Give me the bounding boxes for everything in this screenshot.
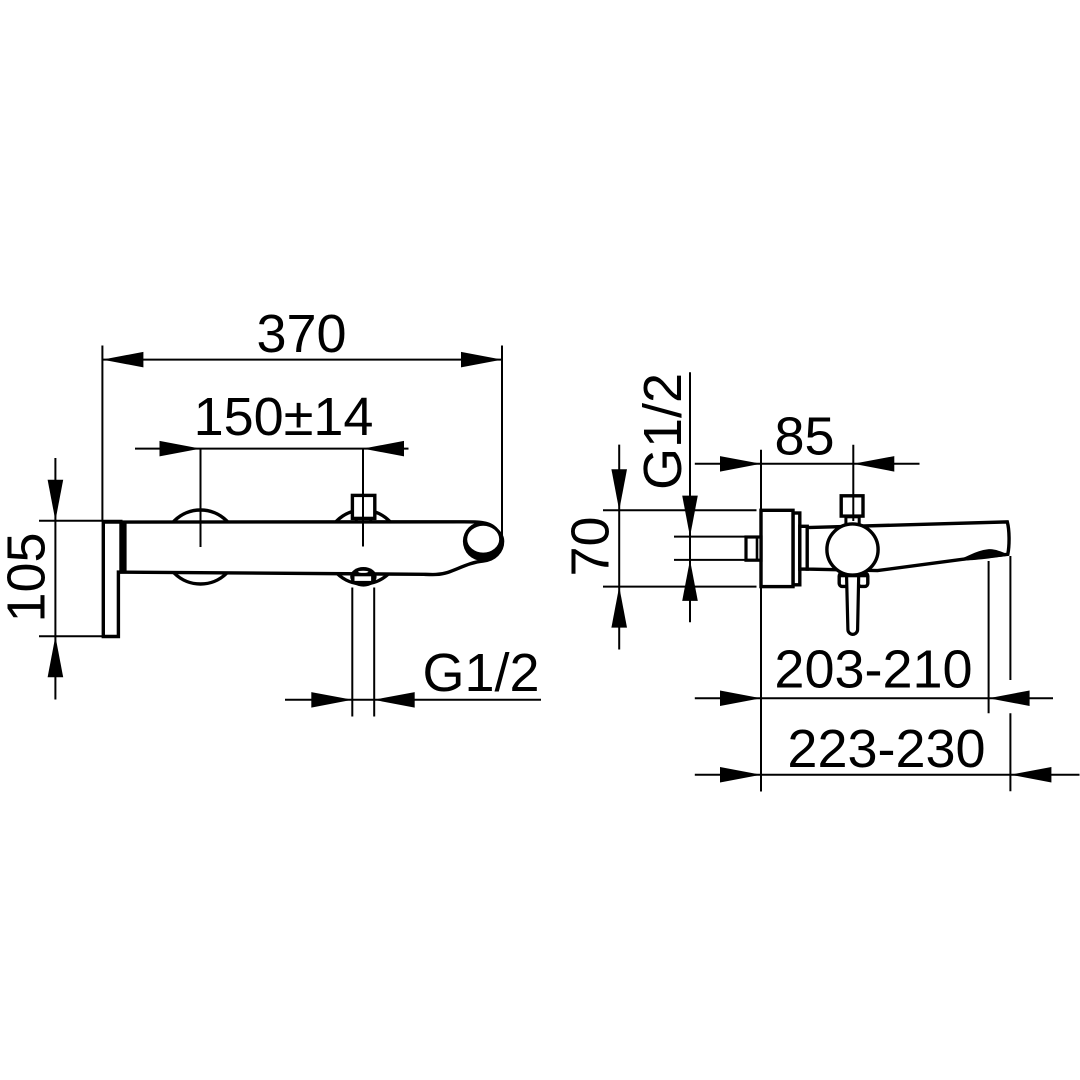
svg-text:85: 85: [774, 407, 834, 467]
svg-text:105: 105: [0, 532, 57, 622]
svg-text:370: 370: [256, 304, 346, 364]
svg-text:70: 70: [561, 516, 621, 576]
svg-text:203-210: 203-210: [774, 640, 972, 700]
svg-text:G1/2: G1/2: [633, 373, 693, 490]
svg-text:150±14: 150±14: [194, 387, 374, 447]
svg-text:G1/2: G1/2: [422, 643, 539, 703]
svg-text:223-230: 223-230: [787, 719, 985, 779]
